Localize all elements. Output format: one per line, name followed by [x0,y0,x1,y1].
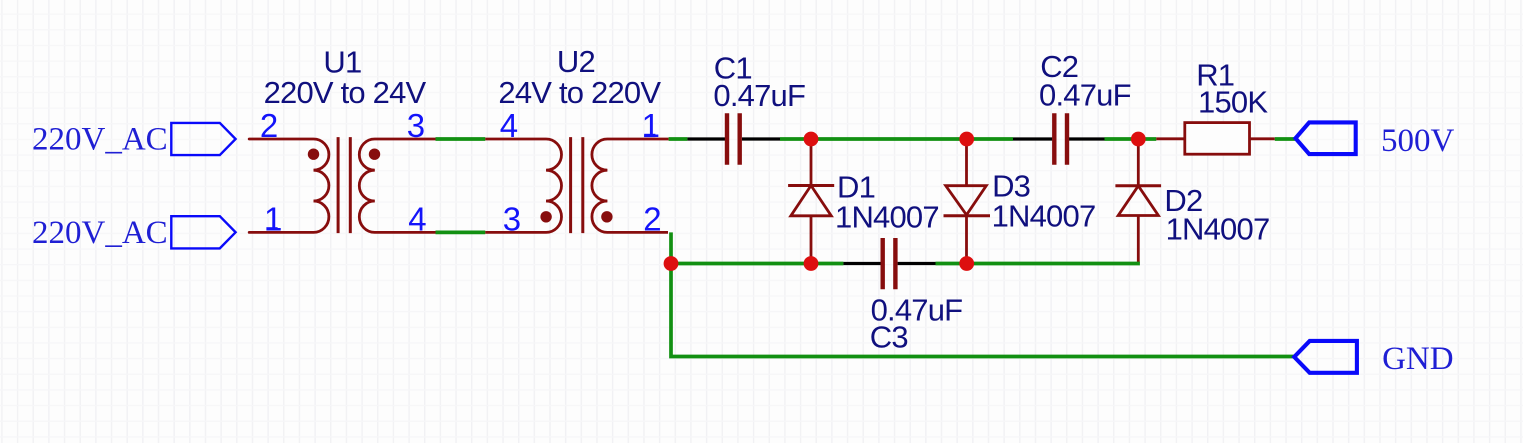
junction top rail at D2 [1131,132,1146,147]
U1 polarity dot left [308,149,319,160]
transformer U1 [249,44,435,237]
U2 left winding with pin 4 and pin 3 leads [485,139,561,232]
svg-text:1: 1 [264,200,282,237]
wire U2 pin1 to C1 [669,137,688,141]
svg-text:3: 3 [407,107,425,144]
U2 core bars [569,137,572,233]
svg-text:0.47uF: 0.47uF [713,78,805,113]
svg-text:1: 1 [642,107,660,144]
U2 polarity dot right [601,211,612,222]
diode D1 [788,139,939,264]
junction top rail at D3 [959,132,974,147]
svg-text:C3: C3 [870,320,908,355]
wire U1 pin3 to U2 pin4 [436,137,486,141]
port 500V [1296,122,1455,158]
junction bottom rail at D1 [804,256,819,271]
U1 core bars [337,137,340,233]
port 220V_AC bottom [32,215,236,251]
svg-text:1N4007: 1N4007 [992,198,1096,233]
capacitor C3 [843,238,962,355]
svg-text:220V_AC: 220V_AC [32,215,168,251]
resistor R1 [1156,57,1275,154]
svg-text:220V to 24V: 220V to 24V [264,75,427,110]
U1 right winding with pin 3 and pin 4 leads [359,139,435,232]
svg-text:GND: GND [1382,341,1454,377]
U1 polarity dot right [369,149,380,160]
U2 right winding with pin 1 and pin 2 leads [592,139,669,232]
wire U1 pin4 to U2 pin3 [436,231,486,235]
wire C1 to C2 top rail [780,137,1013,141]
capacitor C2 [1013,49,1131,165]
junction top rail at D1 [804,132,819,147]
svg-text:2: 2 [643,200,661,237]
transformer U2 [485,44,668,238]
svg-text:0.47uF: 0.47uF [1039,78,1131,113]
port GND [1294,341,1453,377]
svg-text:220V_AC: 220V_AC [32,122,168,158]
svg-text:U1: U1 [323,44,361,79]
diode D3 [944,139,1096,264]
svg-text:2: 2 [260,107,278,144]
svg-text:4: 4 [408,200,426,237]
wire U2 pin2 down to bottom rail and GND run [671,232,1294,356]
junction bottom rail at U2 leg [664,256,679,271]
svg-text:U2: U2 [557,44,595,79]
wire C2 to R1 [1105,137,1157,141]
wire bottom rail left [671,262,843,266]
svg-text:150K: 150K [1198,84,1268,119]
svg-text:4: 4 [500,107,518,144]
port 220V_AC top [32,122,236,158]
junction bottom rail at D3 [959,256,974,271]
svg-text:24V to 220V: 24V to 220V [498,75,661,110]
svg-text:500V: 500V [1381,123,1455,159]
svg-text:1N4007: 1N4007 [1166,212,1270,247]
svg-text:1N4007: 1N4007 [835,200,939,235]
U2 polarity dot left [540,211,551,222]
capacitor C1 [687,51,805,165]
diode D2 [1115,139,1269,263]
wire R1 to 500V port [1275,137,1296,141]
wire bottom rail right [936,262,1140,266]
U1 left winding with pin 2 and pin 1 leads [249,139,329,232]
svg-text:3: 3 [503,200,521,237]
